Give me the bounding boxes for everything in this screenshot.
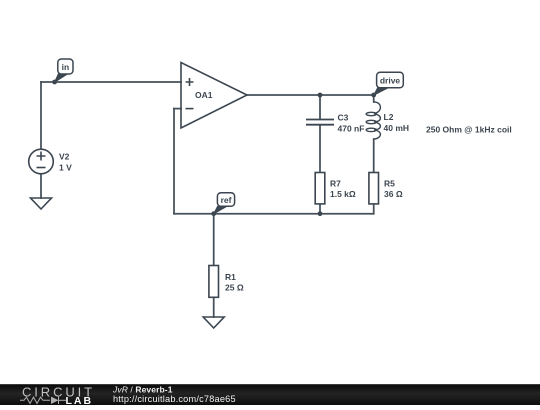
- wire op-amp output to drive node: [247, 94, 374, 96]
- svg-text:LAB: LAB: [66, 395, 94, 405]
- junction node R7 bottom: [318, 211, 323, 216]
- svg-text:1 V: 1 V: [59, 163, 72, 173]
- svg-text:L2: L2: [384, 112, 394, 122]
- svg-text:36 Ω: 36 Ω: [384, 189, 403, 199]
- footer bar: [0, 384, 540, 405]
- wire in node down to V2: [40, 82, 42, 149]
- C3 labels: [338, 113, 365, 134]
- svg-text:R5: R5: [384, 179, 395, 189]
- ground under V2: [31, 198, 52, 209]
- R1 labels: [225, 272, 244, 293]
- resistor R7: [315, 173, 325, 204]
- svg-text:40 mH: 40 mH: [384, 123, 410, 133]
- voltage source V2: [29, 149, 54, 174]
- wire op-amp minus feedback left: [174, 108, 181, 110]
- wire R1 bottom to ground: [213, 297, 215, 317]
- svg-text:JvR / Reverb-1: JvR / Reverb-1: [112, 385, 173, 395]
- wire bottom rail: [174, 213, 374, 215]
- svg-text:drive: drive: [380, 76, 401, 86]
- svg-text:OA1: OA1: [195, 90, 213, 100]
- wire R5 bottom lead: [373, 204, 375, 214]
- svg-text:25 Ω: 25 Ω: [225, 283, 244, 293]
- R7 labels: [330, 179, 356, 200]
- svg-text:470 nF: 470 nF: [338, 124, 365, 134]
- V2 labels: [59, 152, 72, 173]
- ground under R1: [203, 317, 224, 328]
- wire feedback down: [173, 109, 175, 214]
- svg-text:250 Ohm @ 1kHz coil: 250 Ohm @ 1kHz coil: [426, 124, 512, 134]
- junction node C3 top: [318, 93, 323, 98]
- R5 labels: [384, 179, 403, 200]
- resistor R1: [209, 266, 219, 298]
- logo resistor-diode squiggle: [20, 397, 66, 404]
- svg-text:in: in: [62, 62, 70, 72]
- svg-text:C3: C3: [338, 113, 349, 123]
- svg-text:ref: ref: [221, 195, 232, 205]
- node in flag: [52, 59, 73, 84]
- inductor L2: [366, 102, 380, 139]
- wire ref node down to R1: [213, 214, 215, 266]
- L2 labels: [384, 112, 410, 133]
- wire C3 top lead: [319, 95, 321, 119]
- svg-text:R7: R7: [330, 179, 341, 189]
- node drive flag: [371, 72, 403, 97]
- svg-text:R1: R1: [225, 272, 236, 282]
- capacitor C3: [306, 120, 334, 125]
- node ref flag: [211, 193, 234, 216]
- wire R7 bottom lead: [319, 204, 321, 214]
- wire L2 to R5: [373, 139, 375, 173]
- svg-text:1.5 kΩ: 1.5 kΩ: [330, 189, 356, 199]
- svg-text:http://circuitlab.com/c78ae65: http://circuitlab.com/c78ae65: [113, 394, 236, 404]
- wire L2 top lead: [373, 95, 375, 102]
- wire in node to op-amp + input: [41, 81, 181, 83]
- wire C3 to R7: [319, 125, 321, 173]
- op-amp OA1: [181, 63, 247, 129]
- svg-text:V2: V2: [59, 152, 70, 162]
- resistor R5: [369, 173, 379, 204]
- wire V2 bottom to ground: [40, 174, 42, 198]
